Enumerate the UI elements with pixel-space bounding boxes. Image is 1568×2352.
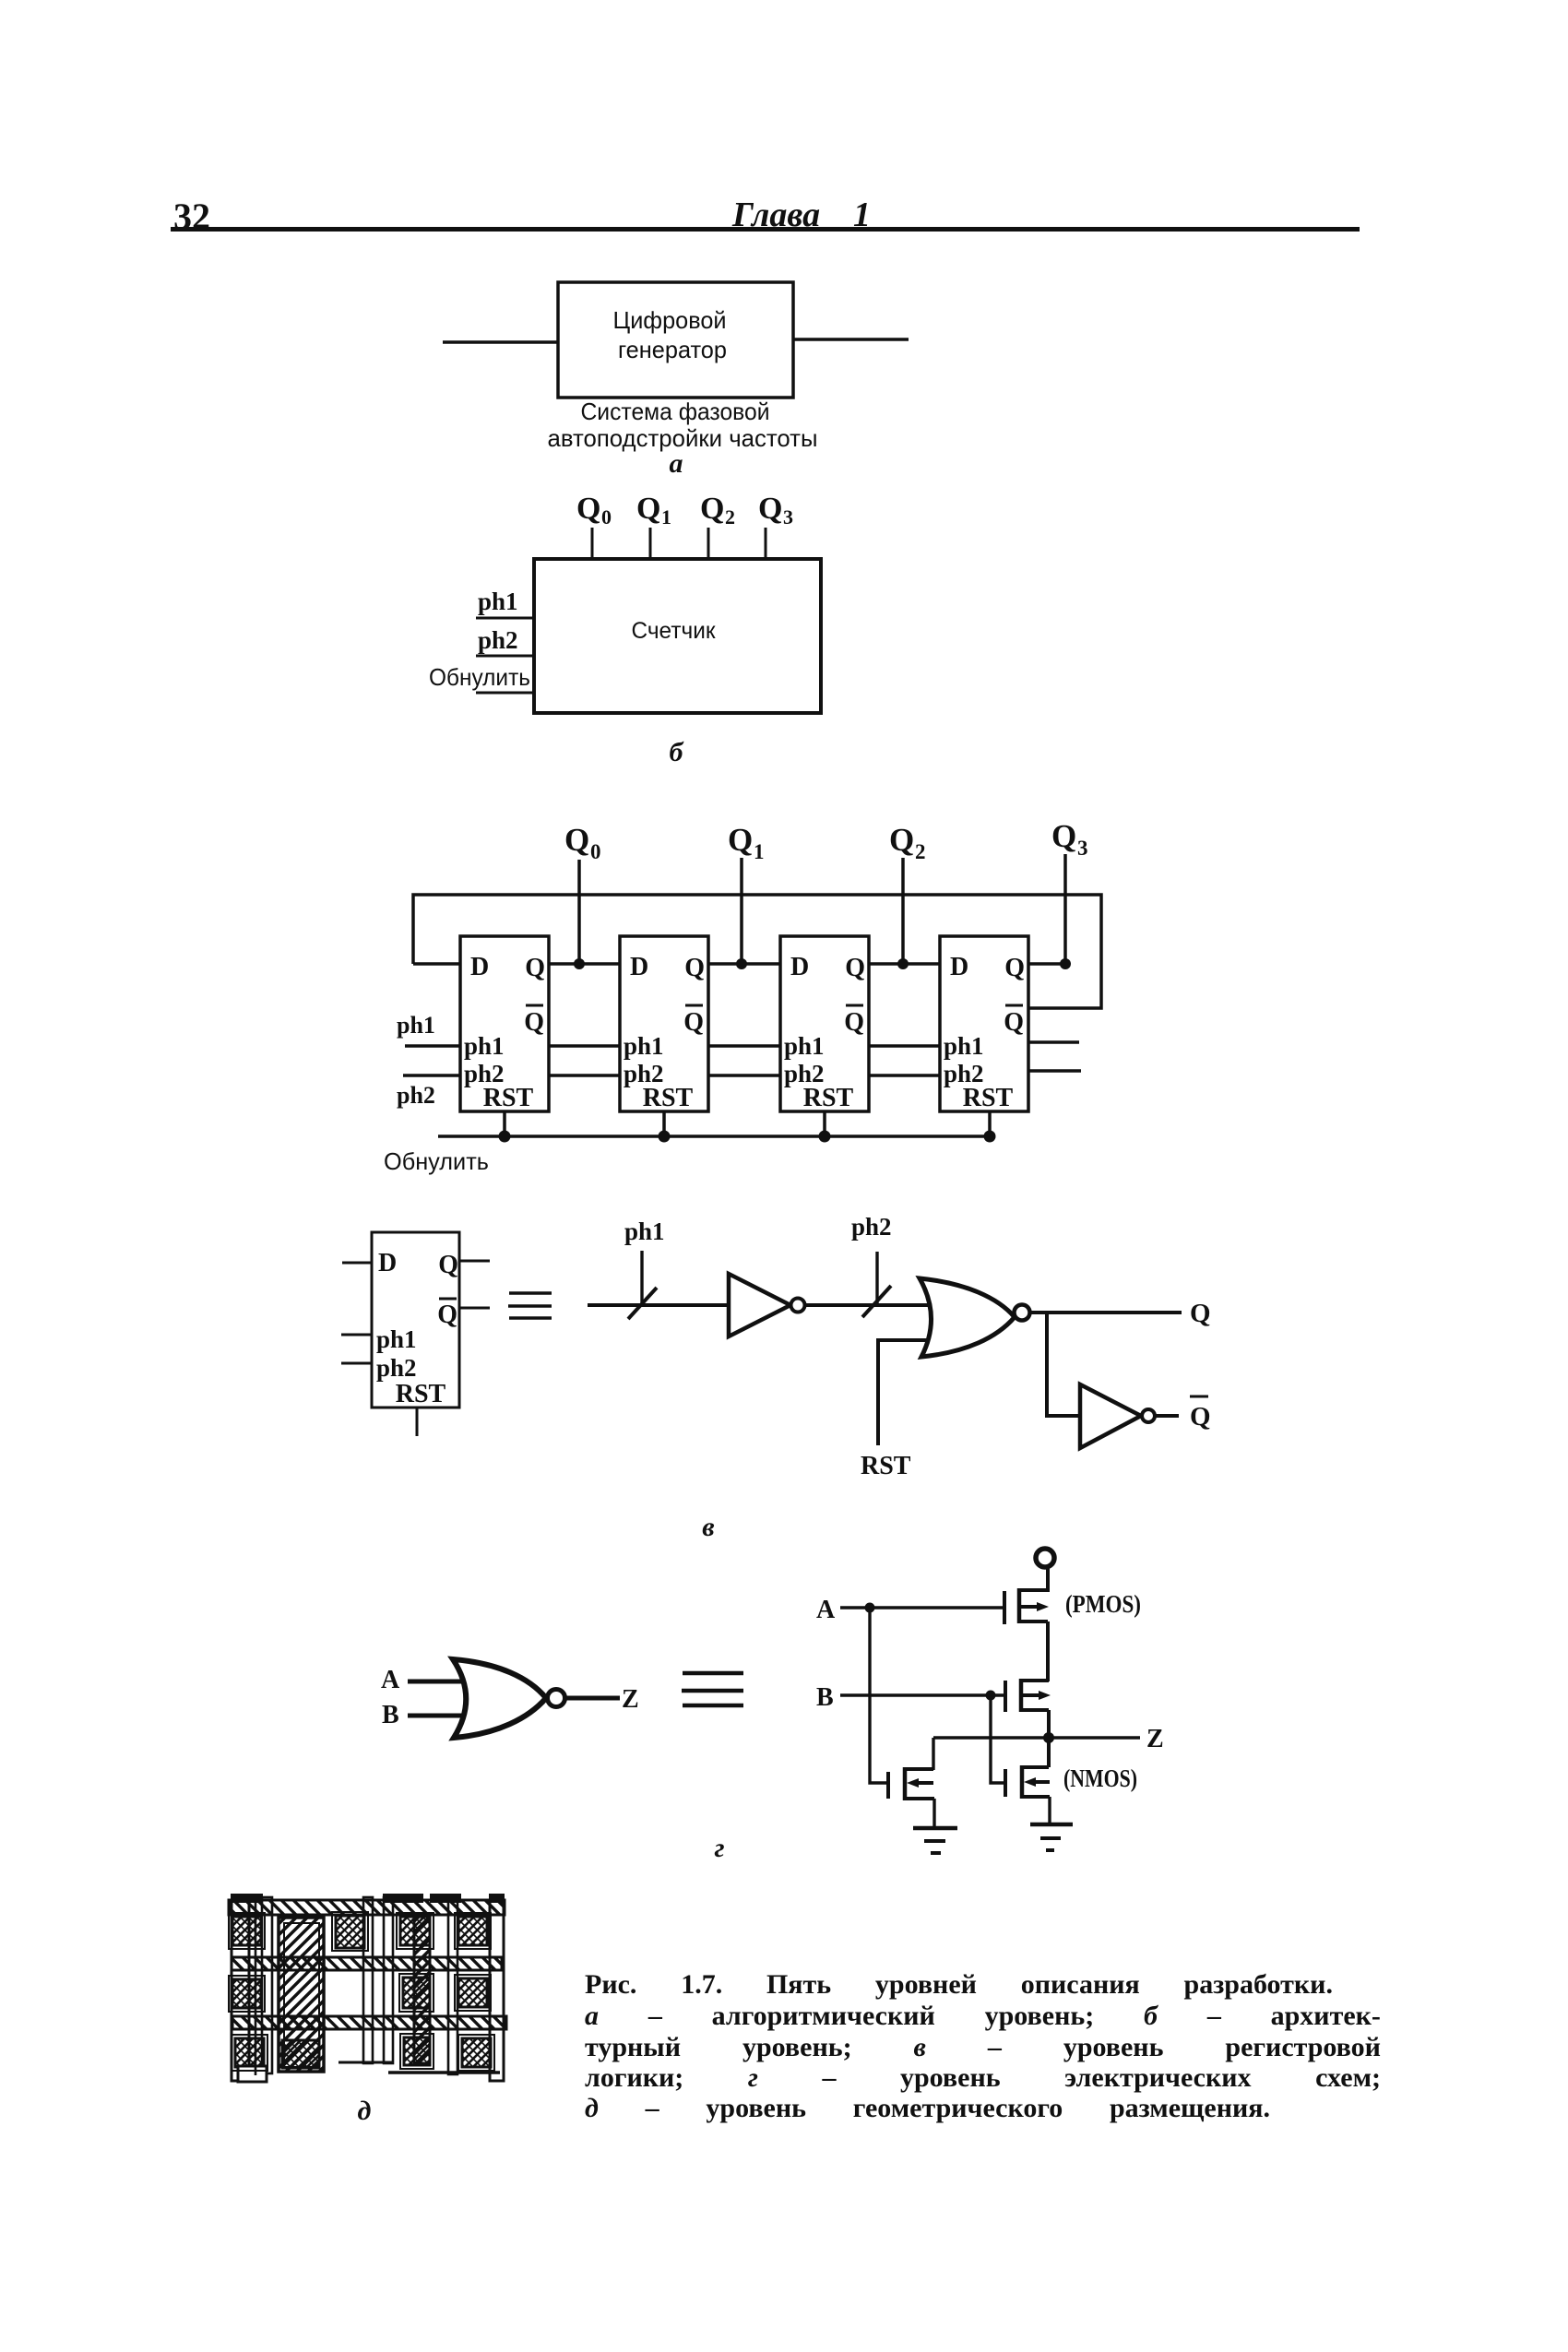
- wire: B down to NMOS2 gate: [991, 1695, 1004, 1783]
- svg-text:D: D: [378, 1249, 397, 1277]
- layout diffusion area mid column: [414, 1916, 430, 2063]
- svg-text:D: D: [790, 953, 809, 981]
- svg-text:RST: RST: [803, 1084, 854, 1112]
- layout contact r3c4: [462, 2038, 491, 2067]
- figure caption line 4: [585, 2062, 1381, 2094]
- svg-text:2: 2: [725, 505, 735, 529]
- junction: node Q1: [736, 958, 747, 969]
- label: output Q0: [576, 492, 612, 529]
- layout contact r3c3: [404, 2037, 430, 2065]
- svg-text:Q: Q: [758, 492, 782, 526]
- wire: ph1 input stub: [341, 1334, 372, 1336]
- svg-text:B: B: [816, 1683, 834, 1712]
- svg-text:Счетчик: Счетчик: [632, 618, 717, 644]
- ground symbol left: [913, 1828, 957, 1853]
- wire: ph1 FF2-FF3: [708, 1044, 780, 1048]
- figure caption line 5: [585, 2093, 1270, 2124]
- svg-text:Обнулить: Обнулить: [384, 1147, 489, 1175]
- svg-text:Система фазовой: Система фазовой: [581, 398, 770, 425]
- layout poly column 3: [363, 1897, 373, 2063]
- NOR gate U2: [920, 1278, 1030, 1357]
- wire: Q3 stub: [765, 528, 767, 559]
- FF1 pin label Q-bar: [524, 1005, 544, 1037]
- wire: Q1 stub: [649, 528, 652, 559]
- svg-text:Q: Q: [437, 1301, 457, 1329]
- svg-text:Q: Q: [684, 954, 705, 982]
- transistor NMOS1: [888, 1767, 934, 1800]
- svg-text:RST: RST: [861, 1452, 911, 1480]
- layout poly column 4: [384, 1897, 393, 2063]
- equivalence sign: [508, 1293, 552, 1318]
- wire: PMOS1 drain to PMOS2 source: [1046, 1621, 1050, 1681]
- svg-text:B: B: [382, 1701, 399, 1729]
- FF4 body: [940, 936, 1028, 1111]
- wire: Q3 to D4: [869, 962, 940, 966]
- layout diffusion inner border: [284, 1923, 319, 2067]
- wire: RST stub FF3: [823, 1111, 826, 1136]
- svg-text:1: 1: [661, 505, 671, 529]
- wire: Z rail down to NMOS2 drain: [1047, 1738, 1051, 1767]
- svg-text:ph1: ph1: [376, 1325, 417, 1353]
- FF1 body: [460, 936, 549, 1111]
- wire: Q1 to D2: [549, 962, 620, 966]
- svg-text:г: г: [714, 1833, 724, 1863]
- wire: D input stub: [342, 1262, 372, 1265]
- wire: ph2 FF1-FF2: [549, 1074, 620, 1077]
- D flip-flop FF1: [460, 936, 549, 1112]
- layout poly column 5: [448, 1897, 457, 2074]
- label: output Q3: [758, 492, 793, 529]
- transmission switch ph2: [862, 1252, 891, 1317]
- layout metal band 1: [229, 1900, 505, 1915]
- layout metal band 3: [232, 2016, 506, 2029]
- svg-text:D: D: [470, 953, 489, 981]
- svg-text:Z: Z: [622, 1685, 639, 1714]
- layout metal column 6: [490, 1901, 504, 2081]
- wire: RST stub FF4: [988, 1111, 992, 1136]
- svg-text:Цифровой: Цифровой: [613, 306, 727, 334]
- label: node Q0: [564, 822, 601, 863]
- wire: ph2 input stub: [341, 1362, 372, 1365]
- D flip-flop FF4: [940, 936, 1028, 1112]
- wire: Z down to NMOS1 drain: [932, 1738, 934, 1770]
- wire: input to digital generator: [443, 340, 558, 344]
- svg-text:RST: RST: [643, 1084, 694, 1112]
- wire: RST stub FF2: [662, 1111, 666, 1136]
- svg-text:Q: Q: [889, 822, 914, 858]
- label: node Q2: [889, 822, 926, 863]
- wire: VDD to PMOS1 source: [1046, 1567, 1050, 1592]
- wire: U1 output to NOR input: [805, 1303, 935, 1307]
- svg-text:в: в: [702, 1512, 714, 1542]
- transistor PMOS1: [1004, 1588, 1049, 1624]
- D flip-flop symbol U-v: [372, 1232, 459, 1408]
- FF2 body: [620, 936, 708, 1111]
- svg-text:ph2: ph2: [478, 626, 518, 654]
- svg-text:Q: Q: [1190, 1402, 1211, 1431]
- svg-text:D: D: [950, 953, 968, 981]
- wire: RST input L-shape: [878, 1340, 939, 1445]
- svg-text:Q: Q: [1051, 818, 1076, 854]
- wire: reset input: [476, 692, 534, 695]
- wire: Q output stub: [459, 1260, 490, 1263]
- junction: reset bus at FF1: [499, 1131, 511, 1143]
- svg-text:б: б: [670, 737, 684, 767]
- figure caption line 2: [585, 2001, 1381, 2032]
- wire: NMOS2 source to ground: [1048, 1797, 1051, 1824]
- wire: Q3 tap vertical: [1063, 854, 1067, 964]
- svg-text:3: 3: [783, 505, 793, 529]
- FF4 pin label Q-bar: [1004, 1005, 1024, 1037]
- wire: D input of equivalent circuit: [588, 1303, 729, 1307]
- FF symbol body: [372, 1232, 459, 1408]
- svg-text:Q: Q: [844, 1008, 864, 1037]
- junction: reset bus at FF2: [659, 1131, 671, 1143]
- junction: node A branch: [865, 1603, 875, 1613]
- wire: Q0 tap vertical: [577, 860, 581, 964]
- transmission switch ph1: [628, 1251, 657, 1319]
- svg-text:Обнулить: Обнулить: [429, 663, 530, 691]
- junction: node Q3: [1060, 958, 1071, 969]
- wire: Q2 tap vertical: [901, 858, 905, 964]
- FF2 pin label Q-bar: [683, 1005, 704, 1037]
- svg-text:Q: Q: [524, 1008, 544, 1037]
- junction: node Q0: [574, 958, 585, 969]
- svg-text:ph2: ph2: [376, 1354, 417, 1382]
- wire: Q1 tap vertical: [740, 858, 743, 964]
- junction: node Q2: [897, 958, 909, 969]
- wire: B to PMOS2 gate: [840, 1693, 1004, 1696]
- svg-text:ph1: ph1: [478, 588, 518, 615]
- layout extra vertical line: [255, 1901, 257, 2075]
- svg-text:ph1: ph1: [624, 1032, 664, 1060]
- wire: Z output of NOR symbol: [565, 1696, 620, 1701]
- svg-text:0: 0: [601, 505, 612, 529]
- wire: RST stub FF1: [503, 1111, 506, 1136]
- wire: D1 input from feedback: [413, 962, 460, 966]
- svg-text:Q: Q: [1190, 1299, 1211, 1328]
- svg-text:Q: Q: [525, 954, 545, 982]
- svg-text:RST: RST: [396, 1380, 446, 1408]
- wire: RST bottom stub: [416, 1408, 419, 1436]
- wire: feedback bus Qbar4 to D1 (top): [413, 895, 1101, 1008]
- layout contact r2c1: [232, 1979, 261, 2008]
- D flip-flop FF2: [620, 936, 708, 1112]
- svg-text:а: а: [670, 448, 683, 479]
- wire: NMOS1 source to ground: [932, 1799, 935, 1828]
- svg-text:(PMOS): (PMOS): [1065, 1590, 1141, 1618]
- inverter U3: [1080, 1384, 1155, 1448]
- wire: ph1 FF1-FF2: [549, 1044, 620, 1048]
- wire: A input to NOR symbol: [408, 1680, 470, 1684]
- svg-text:Q: Q: [1004, 1008, 1024, 1037]
- svg-text:ph2: ph2: [397, 1082, 435, 1109]
- wire: ph1 into FF1: [405, 1044, 460, 1048]
- wire: Q2 to D3: [708, 962, 780, 966]
- svg-text:ph1: ph1: [624, 1218, 665, 1245]
- svg-text:0: 0: [590, 840, 601, 863]
- svg-text:3: 3: [1077, 837, 1088, 860]
- wire: Q0 stub: [591, 528, 594, 559]
- power terminal VDD: [1036, 1549, 1054, 1567]
- transistor NMOS2: [1005, 1765, 1050, 1799]
- ground symbol right: [1030, 1824, 1073, 1850]
- svg-text:1: 1: [754, 840, 765, 863]
- junction: node Z: [1043, 1732, 1054, 1743]
- wire: Q-bar output stub: [459, 1307, 490, 1310]
- layout contact r1c4: [458, 1917, 487, 1945]
- svg-text:Q: Q: [564, 822, 589, 858]
- wire: ph2 after FF4: [1028, 1069, 1081, 1073]
- wire: PMOS2 drain to node Z: [1047, 1710, 1051, 1738]
- FF symbol pin label Q-bar: [437, 1299, 457, 1329]
- svg-text:ph1: ph1: [464, 1032, 505, 1060]
- header rule: [171, 227, 1360, 232]
- wire: A to PMOS1 gate: [840, 1606, 1003, 1609]
- svg-text:Z: Z: [1146, 1725, 1164, 1753]
- layout contact r2c3: [458, 1978, 487, 2007]
- svg-text:ph1: ph1: [944, 1032, 984, 1060]
- wire: ph2 input: [476, 655, 534, 658]
- layout contact r1c1: [232, 1917, 261, 1945]
- block U-a digital generator: [558, 282, 793, 398]
- svg-text:RST: RST: [483, 1084, 534, 1112]
- svg-text:ph2: ph2: [851, 1213, 892, 1241]
- svg-text:2: 2: [915, 840, 926, 863]
- FF3 pin label Q-bar: [844, 1005, 864, 1037]
- label: node Q3: [1051, 818, 1088, 860]
- label: node Q1: [728, 822, 765, 863]
- svg-text:Q: Q: [1004, 954, 1025, 982]
- figure caption line 1: [585, 1969, 1333, 2001]
- layout diffusion area left tall: [279, 1918, 324, 2072]
- label: output Q2: [700, 492, 735, 529]
- layout metal column 2: [262, 1897, 272, 2073]
- wire: node Q output: [1030, 1311, 1182, 1314]
- svg-text:д: д: [358, 2096, 372, 2126]
- label: output Q1: [636, 492, 671, 529]
- wire: ph2 into FF1: [403, 1074, 460, 1077]
- junction: reset bus at FF3: [819, 1131, 831, 1143]
- layout contact r2c2: [403, 1978, 430, 2008]
- inverter U1: [729, 1274, 805, 1336]
- junction: reset bus at FF4: [984, 1131, 996, 1143]
- layout column top tabs: [231, 1894, 505, 1903]
- wire: ph1 input: [476, 617, 534, 620]
- wire: Q4 output stub: [1028, 962, 1065, 966]
- layout bottom interconnect line 2: [388, 2071, 500, 2073]
- running head Глава 1: [731, 196, 871, 234]
- equivalence sign: [682, 1673, 743, 1705]
- svg-text:ph1: ph1: [397, 1012, 435, 1039]
- svg-text:Q: Q: [636, 492, 660, 526]
- wire: reset bus Obnulit: [438, 1134, 990, 1138]
- svg-text:ph1: ph1: [784, 1032, 825, 1060]
- wire: ph2 FF3-FF4: [869, 1074, 940, 1077]
- svg-text:D: D: [630, 953, 648, 981]
- wire: output of digital generator: [793, 338, 909, 341]
- svg-text:A: A: [381, 1666, 400, 1694]
- wire: ph1 after FF4: [1028, 1040, 1079, 1044]
- junction: node B branch: [986, 1691, 996, 1701]
- NOR gate U-g: [453, 1659, 565, 1738]
- layout metal column 1: [232, 1901, 249, 2081]
- svg-text:генератор: генератор: [618, 336, 727, 363]
- figure caption line 3: [585, 2032, 1381, 2063]
- svg-text:(NMOS): (NMOS): [1063, 1764, 1137, 1792]
- layout contact r1c2: [336, 1916, 364, 1948]
- svg-text:Q: Q: [728, 822, 753, 858]
- svg-text:Q: Q: [700, 492, 724, 526]
- wire: A down to NMOS1 gate: [870, 1608, 886, 1783]
- wire: ph2 FF2-FF3: [708, 1074, 780, 1077]
- wire: node Z horizontal: [933, 1736, 1140, 1739]
- svg-text:Q: Q: [845, 954, 865, 982]
- D flip-flop FF3: [780, 936, 869, 1112]
- layout well contact box bottom left: [238, 2066, 267, 2082]
- layout contact r3c1: [235, 2038, 264, 2067]
- layout metal band 2: [232, 1957, 502, 1970]
- svg-text:RST: RST: [963, 1084, 1014, 1112]
- FF3 body: [780, 936, 869, 1111]
- svg-text:Q: Q: [576, 492, 600, 526]
- wire: B input to NOR symbol: [408, 1714, 470, 1718]
- layout contact r3c2: [282, 2040, 319, 2068]
- wire: ph1 FF3-FF4: [869, 1044, 940, 1048]
- svg-text:Q: Q: [438, 1251, 458, 1279]
- wire: branch to inverter U3: [1047, 1313, 1080, 1416]
- label: node Q-bar: [1190, 1396, 1211, 1431]
- layout bottom interconnect line 1: [339, 2061, 392, 2064]
- block U-b counter: [534, 559, 821, 713]
- layout contact r1c3: [400, 1917, 430, 1945]
- svg-text:Q: Q: [683, 1008, 704, 1037]
- svg-text:A: A: [816, 1596, 836, 1624]
- wire: Q2 stub: [707, 528, 710, 559]
- transistor PMOS2: [1005, 1679, 1051, 1712]
- wire: node Q-bar output: [1155, 1414, 1179, 1418]
- layout contact outer frames: [229, 1912, 494, 2071]
